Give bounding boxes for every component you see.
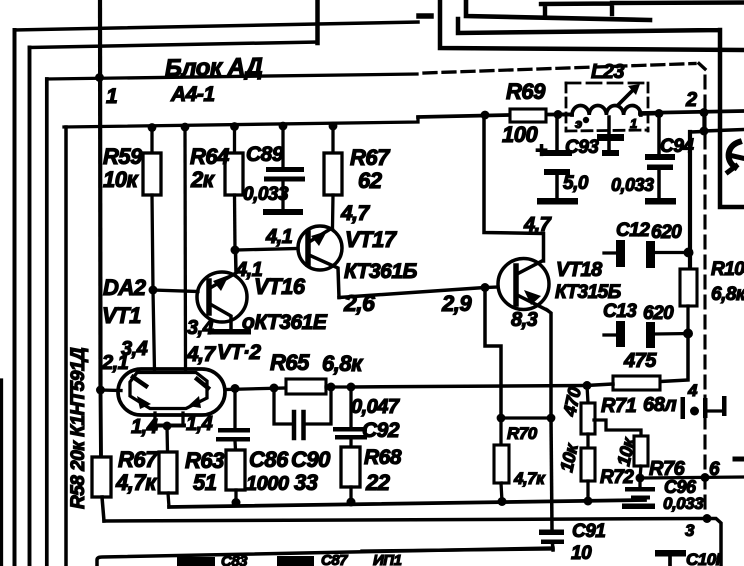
resistor R59 xyxy=(143,127,161,371)
svg-text:3: 3 xyxy=(685,521,695,540)
svg-text:оКТ361Е: оКТ361Е xyxy=(242,311,328,334)
wire VT18 emitter down xyxy=(547,310,551,418)
wire left edge vertical xyxy=(0,380,3,566)
svg-text:ИП1: ИП1 xyxy=(373,552,402,566)
svg-text:э: э xyxy=(575,116,582,131)
capacitor C12 xyxy=(604,240,689,268)
wire top right W5 xyxy=(440,2,744,50)
svg-text:2: 2 xyxy=(685,89,697,111)
node 3 junction and wire to bottom right xyxy=(703,514,722,566)
node junction emitter column y418 xyxy=(547,414,556,423)
resistor R64 xyxy=(225,127,243,251)
node 2 junction upper xyxy=(700,108,709,117)
wire node2 tick between rails xyxy=(702,113,705,131)
wire bottom line from R58 across page xyxy=(104,519,707,522)
svg-text:С13: С13 xyxy=(603,301,637,322)
wire ground rail inside block xyxy=(169,500,645,507)
svg-text:10к: 10к xyxy=(103,167,139,192)
svg-text:L23: L23 xyxy=(591,61,624,83)
capacitor C86 xyxy=(216,389,250,451)
svg-text:А4-1: А4-1 xyxy=(170,83,215,106)
capacitor C92 xyxy=(333,387,367,447)
node junction C90 left tap xyxy=(270,384,279,393)
wire VT17 base xyxy=(235,249,298,251)
resistor R68 xyxy=(341,447,360,502)
svg-text:10: 10 xyxy=(571,543,592,564)
node 2 junction lower xyxy=(700,127,709,136)
svg-text:2,6: 2,6 xyxy=(343,290,375,316)
svg-text:0,033: 0,033 xyxy=(243,184,289,205)
svg-text:VT·2: VT·2 xyxy=(217,341,261,364)
wire input from top at x100 xyxy=(98,0,103,390)
svg-text:0,047: 0,047 xyxy=(351,396,400,418)
resistor R72 (10k) xyxy=(581,448,595,501)
svg-text:0,033: 0,033 xyxy=(611,175,654,195)
node junction 2,9 xyxy=(481,283,490,292)
component rect next block 1 xyxy=(177,557,215,566)
dashed block border corner xyxy=(699,64,705,70)
svg-text:22: 22 xyxy=(365,470,391,495)
svg-text:33: 33 xyxy=(294,470,318,495)
transistor VT18 xyxy=(498,259,549,311)
svg-text:2,1: 2,1 xyxy=(101,352,129,374)
wire main supply y114 after R69 xyxy=(546,113,572,117)
svg-text:С87: С87 xyxy=(321,552,348,566)
node junction rail R64 xyxy=(230,122,239,131)
wire left bus 4 vertical xyxy=(64,127,68,566)
svg-text:С90: С90 xyxy=(291,447,331,472)
node junction C12 / R104 xyxy=(684,248,694,258)
L23 shield dashed box xyxy=(566,83,648,131)
wire R104 column to R75 xyxy=(660,331,688,382)
resistor R63 xyxy=(226,450,245,503)
svg-text:2,9: 2,9 xyxy=(441,291,472,316)
wire left bus 2 vertical xyxy=(28,48,32,566)
svg-text:С89: С89 xyxy=(246,143,284,166)
wire top right W4 xyxy=(458,19,744,207)
wire DA2 output y388 xyxy=(225,388,286,390)
wire vertical from top edge at x317 xyxy=(315,0,320,43)
resistor R67 4,7k xyxy=(159,426,177,507)
capacitor C13 xyxy=(604,321,688,348)
svg-text:R69: R69 xyxy=(506,79,546,104)
capacitor C93 xyxy=(537,114,578,205)
svg-text:4,7к: 4,7к xyxy=(513,469,546,488)
decorative element right edge squiggle xyxy=(728,142,742,172)
svg-text:+: + xyxy=(535,139,547,162)
wire R70 top to emitter column xyxy=(501,416,551,419)
svg-text:100: 100 xyxy=(502,122,538,147)
node junction rail R72 xyxy=(584,497,593,506)
svg-text:475: 475 xyxy=(623,350,657,372)
node junction C86 tap xyxy=(231,384,240,393)
wire from R69 node down to VT18 collector xyxy=(484,115,544,261)
wire R71/R72 junction to R76 column xyxy=(594,420,641,436)
inductor L23 xyxy=(558,84,659,123)
resistor R71 (470) xyxy=(581,386,595,435)
wire VT18 base from node 2,9 xyxy=(485,285,498,289)
wire left bus 1 horizontal top xyxy=(15,22,419,30)
wire main y386 to the right xyxy=(351,386,586,388)
resistor R65 xyxy=(286,379,351,394)
svg-text:4,7: 4,7 xyxy=(340,202,371,225)
node junction rail DA2 collector xyxy=(181,123,190,132)
svg-text:R68: R68 xyxy=(364,446,402,469)
node junction C93 tap xyxy=(554,110,563,119)
wire stub right edge y459 xyxy=(735,457,744,462)
dashed block border right vertical xyxy=(703,76,706,515)
wire top right W1 xyxy=(541,3,744,18)
node junction R69 left xyxy=(481,111,490,120)
component rect next block 2 xyxy=(277,556,314,566)
wire block row separator xyxy=(64,117,418,127)
ground symbol L23 shield xyxy=(597,117,624,156)
svg-text:0,033: 0,033 xyxy=(663,494,704,513)
svg-text:620: 620 xyxy=(651,222,682,243)
svg-text:4,1: 4,1 xyxy=(265,226,293,248)
terminal node 4 xyxy=(681,396,727,419)
transistor VT17 xyxy=(298,226,342,298)
svg-text:68л: 68л xyxy=(643,394,677,416)
wire VT17 collector output to node 2,9 xyxy=(339,288,485,298)
wire emitter column through rails to C91 xyxy=(551,418,552,530)
wire second output rail y131 xyxy=(690,130,744,133)
wire top right W2 stub xyxy=(419,13,431,19)
node junction rail R67 xyxy=(329,122,338,131)
svg-text:R67: R67 xyxy=(118,447,159,472)
svg-text:Блок АД: Блок АД xyxy=(165,53,263,82)
node junction rail R63 xyxy=(232,498,241,507)
svg-text:1: 1 xyxy=(630,116,637,131)
node junction R71 top xyxy=(583,381,592,390)
svg-text:С91: С91 xyxy=(572,521,605,542)
svg-text:2к: 2к xyxy=(190,167,216,192)
capacitor C101 (next block) xyxy=(655,550,686,566)
svg-text:4: 4 xyxy=(687,381,698,400)
svg-text:3,4: 3,4 xyxy=(187,317,214,339)
node junction DA2 left input xyxy=(96,386,105,395)
wire main supply y114 xyxy=(418,115,510,117)
svg-text:R72: R72 xyxy=(600,467,634,488)
capacitor C94 xyxy=(645,113,676,205)
resistor R104 xyxy=(680,269,697,334)
node 6 junction xyxy=(701,473,710,482)
wire R71 to R72 link xyxy=(586,434,589,448)
wire C91 bottom going left xyxy=(362,549,553,551)
svg-text:62: 62 xyxy=(358,168,383,193)
svg-text:6,8к: 6,8к xyxy=(322,351,364,376)
next block frame top xyxy=(97,548,553,566)
wire block AD top line xyxy=(47,74,417,79)
svg-text:КТ315Б: КТ315Б xyxy=(555,282,621,303)
node junction VT16 collector / R64 xyxy=(231,246,240,255)
svg-text:VT17: VT17 xyxy=(345,227,398,252)
node junction DA2 emitter bar xyxy=(163,422,172,431)
svg-text:4,7: 4,7 xyxy=(186,343,217,366)
svg-text:R64: R64 xyxy=(190,144,229,169)
node junction rail C89 xyxy=(279,122,288,131)
wire main supply y114 to node 2 xyxy=(640,111,744,113)
node junction x100 on block AD line xyxy=(95,73,104,82)
wire top right W2 xyxy=(466,0,650,20)
svg-text:10к: 10к xyxy=(556,441,582,474)
svg-text:1: 1 xyxy=(106,85,117,108)
node junction rail R68 xyxy=(347,498,356,507)
svg-text:R65: R65 xyxy=(270,350,310,375)
svg-text:VT18: VT18 xyxy=(556,259,603,281)
resistor R67 62 xyxy=(324,126,342,227)
svg-text:С10I: С10I xyxy=(686,550,722,566)
svg-text:R58 20к К1НТ591Д: R58 20к К1НТ591Д xyxy=(68,347,89,509)
wire VT16 base xyxy=(153,290,198,292)
dashed block border top xyxy=(424,64,695,74)
node junction R76 / C96 / node 6 wire xyxy=(636,474,645,483)
dual transistor DA2 (VT1) package xyxy=(118,369,225,415)
svg-text:1,4: 1,4 xyxy=(131,416,158,438)
capacitor C96 xyxy=(622,478,655,509)
svg-text:КТ361Б: КТ361Б xyxy=(344,260,418,283)
svg-text:51: 51 xyxy=(193,470,217,495)
svg-text:R104: R104 xyxy=(711,259,744,280)
capacitor C91 xyxy=(539,530,564,551)
svg-text:8,3: 8,3 xyxy=(511,309,538,331)
svg-text:R59: R59 xyxy=(103,144,143,169)
ground bar VT16 emitter xyxy=(210,329,251,335)
capacitor C90 parallel to R65 xyxy=(274,387,331,438)
node junction C13 / R104 bottom xyxy=(683,329,693,339)
wire to node 6 xyxy=(640,477,744,478)
wire node2 column down x690 xyxy=(688,132,692,269)
svg-text:4,7к: 4,7к xyxy=(115,470,158,495)
node junction rail R59 xyxy=(148,123,157,132)
node junction C92 tap xyxy=(347,383,356,392)
svg-text:1,4: 1,4 xyxy=(186,413,213,435)
wire left bus 3 vertical xyxy=(45,79,49,566)
resistor R69 xyxy=(510,109,546,122)
node junction rail R70 xyxy=(498,497,507,506)
svg-text:VT16: VT16 xyxy=(254,274,306,299)
svg-text:6: 6 xyxy=(709,459,720,480)
svg-text:6,8к: 6,8к xyxy=(711,284,744,305)
svg-text:5,0: 5,0 xyxy=(563,173,589,194)
node junction R59 / VT16 base xyxy=(149,286,158,295)
svg-text:С83: С83 xyxy=(221,553,248,566)
svg-text:4,7: 4,7 xyxy=(523,214,552,236)
resistor R75 (475) xyxy=(586,376,660,390)
svg-text:С92: С92 xyxy=(362,419,400,442)
svg-text:DA2: DA2 xyxy=(103,275,147,300)
svg-text:С86: С86 xyxy=(249,447,289,472)
svg-text:С12: С12 xyxy=(616,220,650,241)
svg-text:620: 620 xyxy=(643,303,674,324)
wire left bus 1 vertical xyxy=(13,30,17,566)
wire node 2,9 down with jog xyxy=(485,290,501,418)
node junction R65 right xyxy=(327,383,336,392)
wire DA2 left lead xyxy=(101,388,122,392)
svg-text:R67: R67 xyxy=(350,145,391,170)
resistor R58 xyxy=(92,390,111,521)
transistor VT16 xyxy=(197,250,247,329)
wire left bus 2 horizontal top xyxy=(30,42,318,48)
svg-text:С94: С94 xyxy=(660,136,694,157)
resistor R70 xyxy=(494,418,509,502)
svg-text:VT1: VT1 xyxy=(102,303,141,328)
svg-text:R70: R70 xyxy=(507,424,538,443)
svg-text:С93: С93 xyxy=(565,137,599,158)
svg-text:R71: R71 xyxy=(601,395,637,417)
node junction C94 tap xyxy=(655,109,664,118)
wire DA2 right collector from rail xyxy=(183,127,187,371)
wire DA2 emitter common bar xyxy=(152,424,184,428)
resistor R76 (10k) xyxy=(634,436,648,478)
wire DA2 emitters to common bar xyxy=(155,413,183,424)
svg-text:1000: 1000 xyxy=(246,473,289,495)
capacitor C89 xyxy=(263,126,305,215)
node junction R70 top xyxy=(497,414,506,423)
